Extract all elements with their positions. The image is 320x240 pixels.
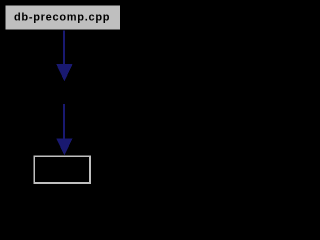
node db-precomp.cpp (root, grey filled) — [6, 6, 121, 30]
edge arrow 2 tail (wire) — [63, 104, 65, 138]
node bottom (empty box) — [34, 156, 90, 183]
edge arrow 2 head — [56, 138, 72, 155]
edge arrow 1 head — [56, 64, 72, 81]
edge arrow 1 tail (wire) — [63, 31, 65, 65]
svg-text:db-precomp.cpp: db-precomp.cpp — [14, 11, 110, 23]
